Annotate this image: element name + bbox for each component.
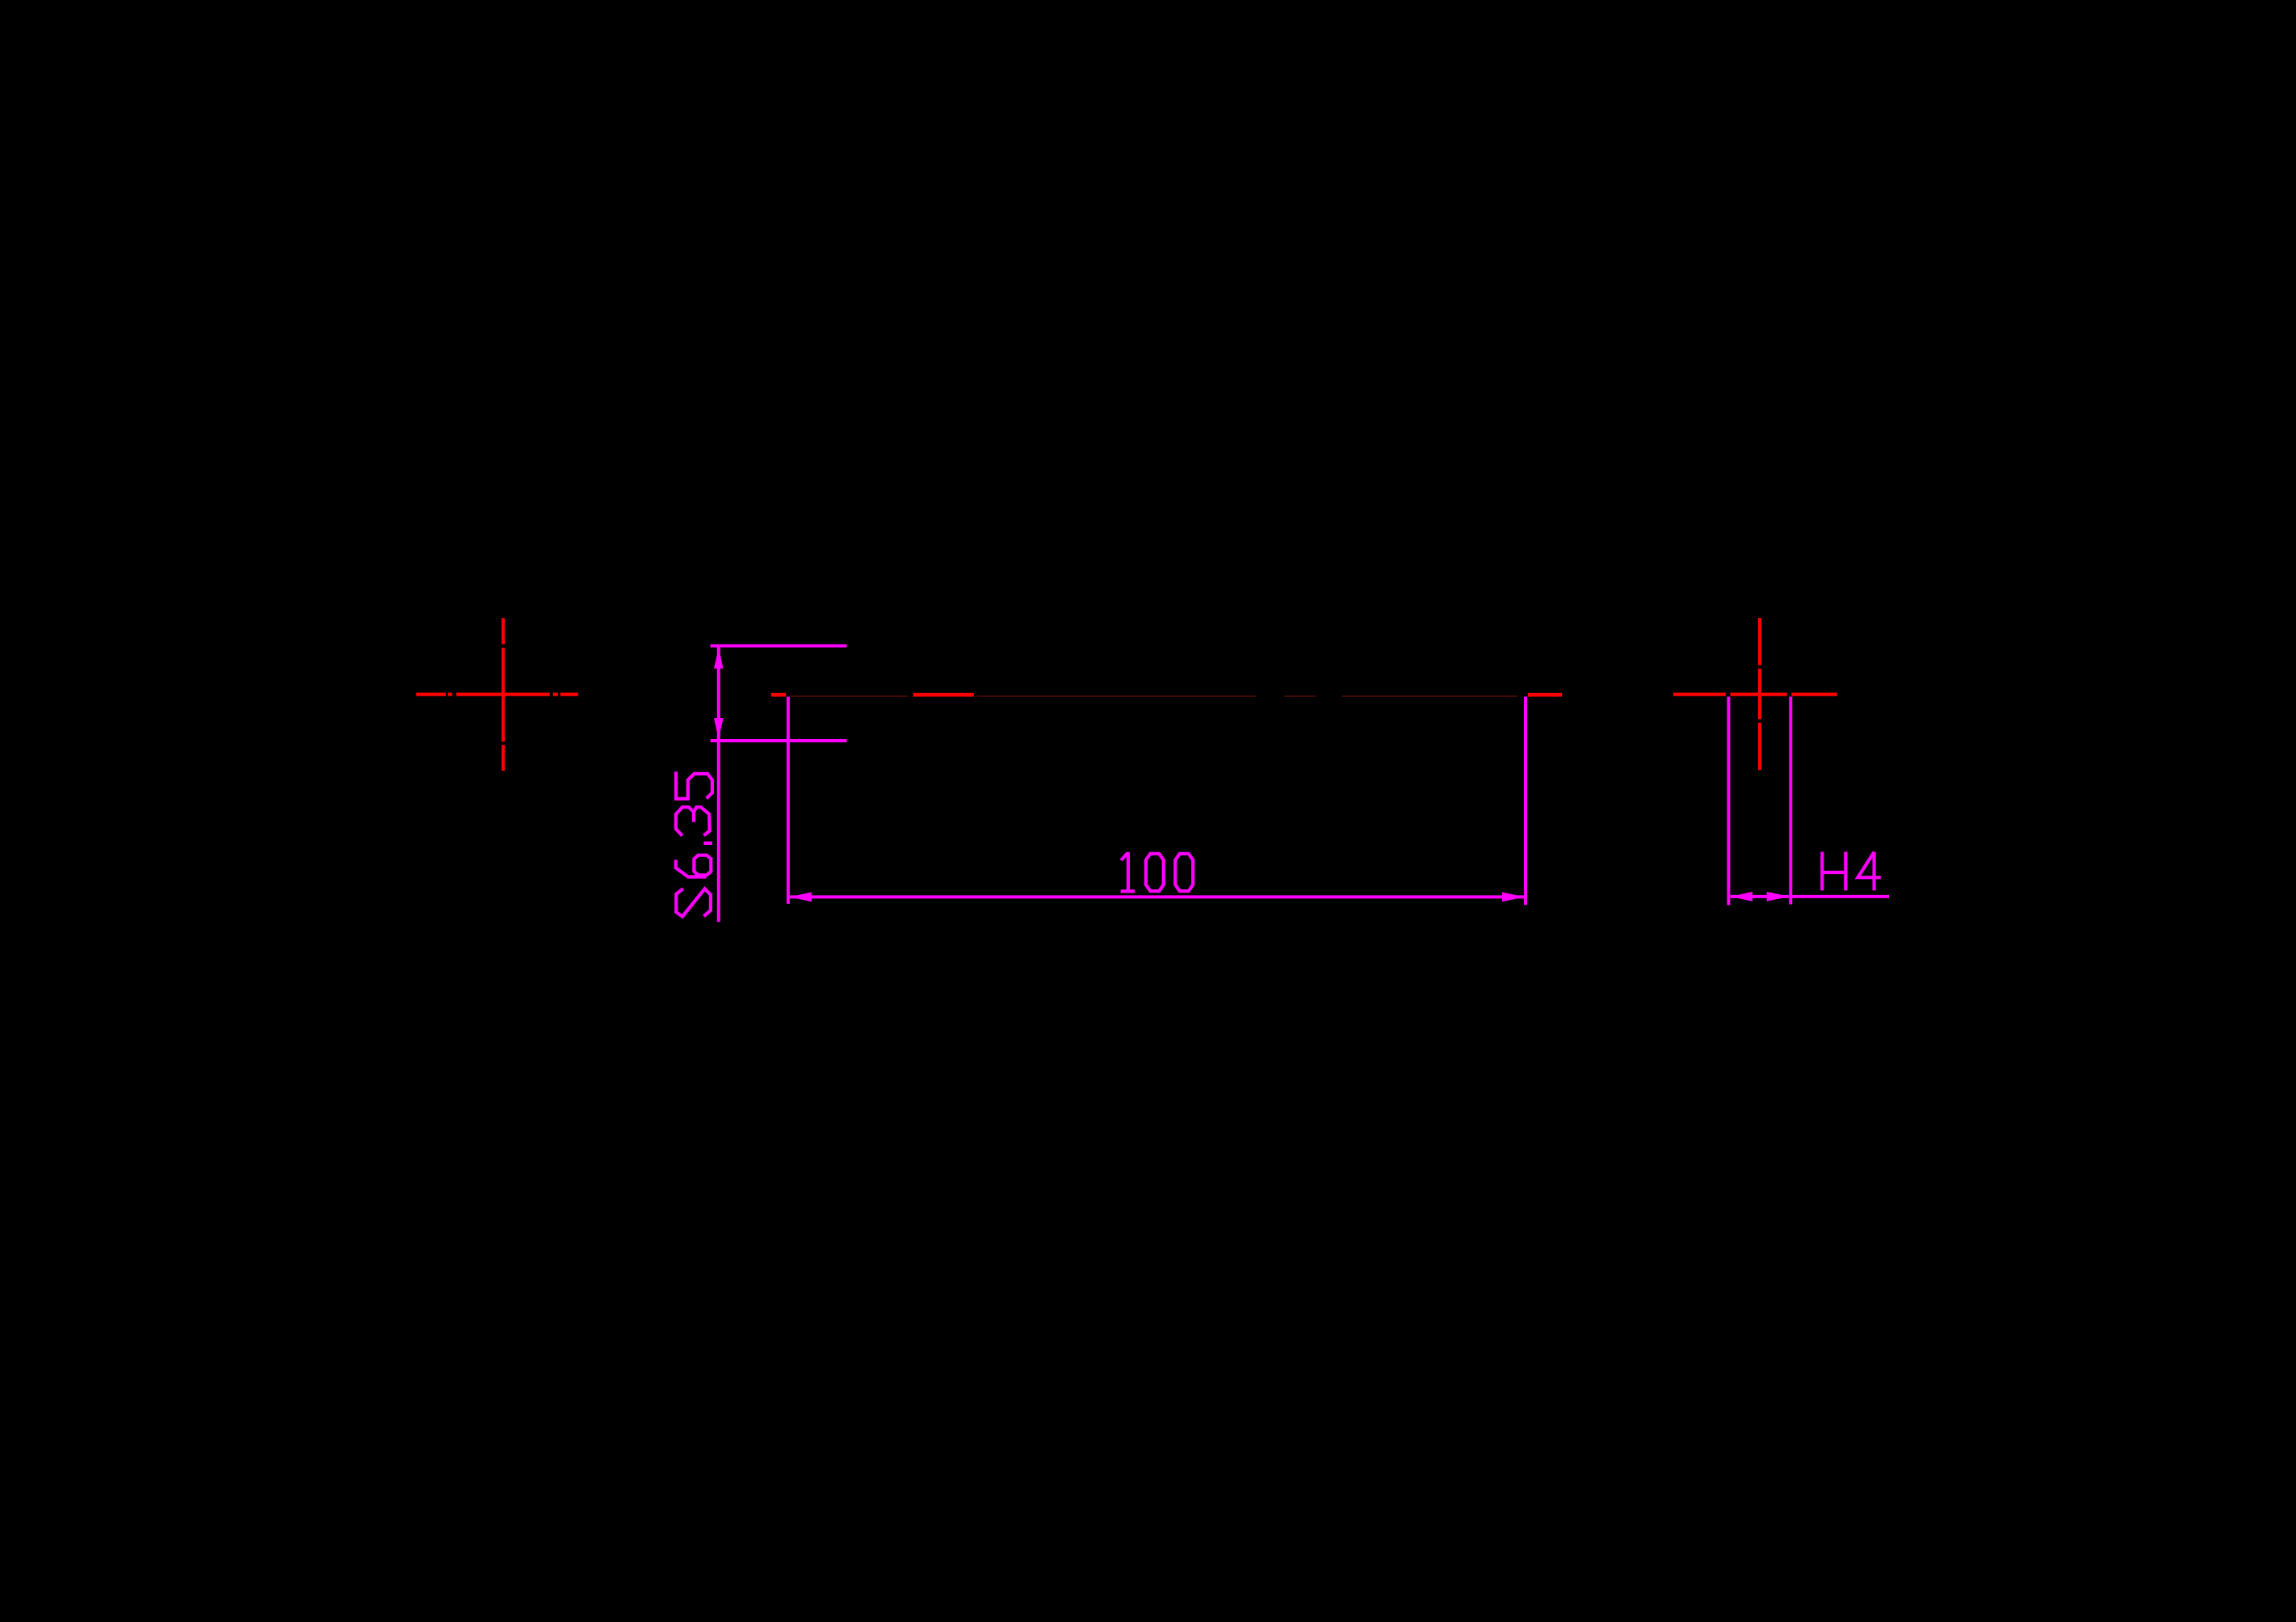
dimension S6.35 : top extension line	[711, 645, 847, 648]
dimension S6.35 : text "S" (rotated)	[676, 889, 711, 917]
center mark left : horizontal centerline dashes	[416, 692, 577, 695]
dimension 100 : left extension line	[787, 697, 790, 904]
dimension 100 : text "0" (first)	[1146, 854, 1164, 891]
dimension S6.35 : text "3" (rotated)	[676, 807, 710, 835]
dimension S6.35 : text "5" (rotated)	[676, 771, 712, 799]
dimension 100 : right extension line	[1524, 697, 1527, 906]
center mark right : horizontal centerline dashes	[1673, 692, 1837, 695]
dimension S6.35 : arrowhead up	[714, 648, 724, 669]
dimension 100 : dimension line	[790, 895, 1524, 898]
dimension S6.35 : arrowhead down	[714, 718, 724, 739]
dimension S6.35 : text "." (rotated)	[703, 842, 712, 845]
dimension H4 : text "4"	[1857, 852, 1880, 891]
center mark left : vertical centerline dashes	[502, 618, 505, 771]
dimension 100 : arrowhead left	[790, 892, 812, 901]
center mark right : vertical centerline dashes	[1758, 618, 1761, 770]
dimension S6.35 : bottom extension line	[711, 739, 847, 742]
dimension H4 : text "H"	[1822, 852, 1845, 891]
dimension H4 : arrowhead right	[1767, 892, 1789, 901]
connecting centerline : faint dark segments	[790, 695, 1517, 697]
connecting centerline : bright red dashes	[771, 693, 1562, 697]
dimension 100 : text "1"	[1121, 852, 1135, 892]
dimension H4 : dimension line extension under text	[1790, 895, 1889, 898]
dimension S6.35 : vertical dimension line	[717, 646, 720, 922]
dimension H4 : left extension line	[1727, 697, 1730, 906]
dimension H4 : arrowhead left	[1731, 892, 1752, 901]
dimension S6.35 : text "6" (rotated)	[676, 855, 711, 877]
dimension H4 : dimension line between extensions	[1731, 895, 1790, 898]
dimension 100 : arrowhead right	[1502, 892, 1524, 901]
dimension 100 : text "0" (second)	[1175, 854, 1193, 891]
dimension H4 : right extension line	[1789, 697, 1792, 905]
